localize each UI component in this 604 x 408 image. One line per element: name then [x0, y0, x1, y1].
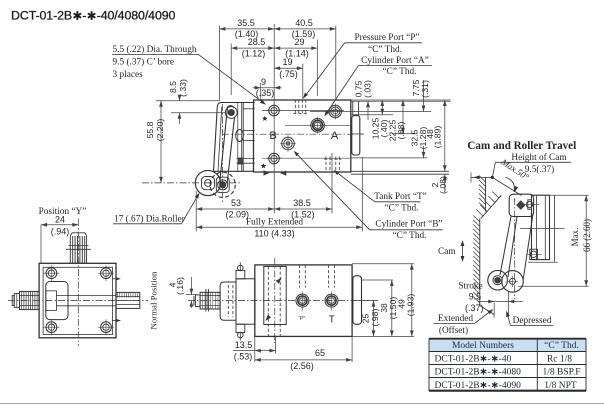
- direction arrows right edge: [112, 278, 119, 280]
- svg-text:“C” Thd.: “C” Thd.: [383, 67, 417, 77]
- lower clamp bolt: [238, 158, 244, 165]
- svg-text:110 (4.33): 110 (4.33): [254, 229, 294, 239]
- svg-text:B: B: [269, 130, 276, 142]
- roller center line: [142, 182, 240, 184]
- hidden tank port dashed: [325, 157, 327, 172]
- bracket to body connectors: [243, 108, 255, 110]
- dim 55.8 (2.20): [160, 101, 162, 183]
- svg-text:(2.56): (2.56): [290, 361, 314, 371]
- dim 35.5 / 40.5 row: [219, 28, 274, 30]
- svg-text:8.5: 8.5: [168, 81, 178, 93]
- line capsule mid: [351, 133, 364, 135]
- svg-text:DCT-01-2B∗-∗-4090: DCT-01-2B∗-∗-4090: [435, 381, 522, 391]
- svg-text:28.5: 28.5: [248, 37, 266, 47]
- svg-text:(.37): (.37): [465, 303, 484, 313]
- lever arm: [220, 107, 228, 180]
- svg-text:(.35): (.35): [256, 88, 275, 98]
- svg-text:9: 9: [261, 77, 266, 87]
- svg-text:Model Numbers: Model Numbers: [452, 341, 514, 351]
- line lower hole row: [262, 157, 351, 159]
- side view vertical center line: [274, 258, 276, 343]
- side view hidden bolt lines: [267, 266, 269, 336]
- pivot bolt: [225, 107, 237, 119]
- dim 28.5 / 29 row: [231, 47, 274, 49]
- dim 10.25 (.40): [381, 100, 383, 115]
- svg-text:Normal Position: Normal Position: [148, 271, 158, 330]
- cam hatching: [479, 176, 486, 183]
- plunger tip: [195, 295, 200, 307]
- svg-text:9.5 (.37) C’ bore: 9.5 (.37) C’ bore: [113, 56, 175, 67]
- svg-text:Cam and Roller Travel: Cam and Roller Travel: [467, 140, 576, 152]
- svg-text:(2.20): (2.20): [155, 119, 165, 142]
- cam follower boss: [236, 130, 244, 142]
- side view right extension lines: [352, 263, 414, 265]
- extension lines below main view: [195, 191, 197, 232]
- svg-text:(.31): (.31): [420, 80, 430, 98]
- svg-text:Cam: Cam: [438, 247, 456, 257]
- svg-text:(.75): (.75): [279, 69, 298, 79]
- dim 25 (.98): [373, 301, 375, 337]
- side view right cap: [353, 276, 362, 325]
- svg-text:“C” Thd.: “C” Thd.: [385, 204, 419, 214]
- main view valve body: [254, 100, 351, 172]
- svg-text:Extended: Extended: [438, 314, 473, 324]
- svg-text:3 places: 3 places: [113, 70, 144, 80]
- main view spool end cap: [352, 116, 360, 155]
- svg-text:(.03): (.03): [362, 80, 372, 98]
- side view bolt hole section: [264, 266, 286, 324]
- position Y spool through body: [56, 295, 116, 297]
- svg-text:“C” Thd.: “C” Thd.: [393, 231, 427, 241]
- position Y right spool splined: [116, 292, 140, 308]
- svg-text:Pressure Port “P”: Pressure Port “P”: [354, 33, 419, 43]
- extension lines above body: [218, 26, 220, 102]
- stroke dim: [493, 303, 495, 318]
- plunger center line: [77, 219, 79, 346]
- cam view rollers: [488, 270, 508, 290]
- svg-text:Cylinder Port “B”: Cylinder Port “B”: [375, 219, 442, 229]
- line A-port row: [310, 111, 431, 113]
- cam view lever arms: [500, 217, 511, 276]
- svg-text:Tank Port “T”: Tank Port “T”: [374, 192, 427, 202]
- port boss top-right triple circle: [329, 105, 341, 117]
- cam view lever pad: [509, 194, 533, 216]
- mounting hole bottom-left: [269, 153, 280, 164]
- dim max 66 (2.60): [585, 195, 587, 286]
- svg-text:17 (.67) Dia.Roller: 17 (.67) Dia.Roller: [114, 213, 186, 224]
- svg-text:(1.12): (1.12): [242, 49, 266, 59]
- spool stem verticals: [352, 101, 354, 115]
- hidden pressure port dashed: [294, 100, 296, 116]
- bottom plate lines extending right: [351, 170, 449, 172]
- side view P port: [296, 294, 309, 307]
- svg-text:24: 24: [55, 214, 65, 224]
- dim 53 / 38.5 row: [196, 208, 274, 210]
- svg-text:35.5: 35.5: [237, 18, 255, 28]
- dim 22.25 (.88): [402, 100, 404, 134]
- svg-text:66 (2.60): 66 (2.60): [582, 219, 592, 252]
- svg-text:40.5: 40.5: [295, 18, 313, 28]
- dim 49 (1.93): [411, 264, 413, 337]
- dim 0.75 (.03): [367, 101, 369, 120]
- dim 38 (1.50): [391, 280, 393, 336]
- svg-text:(1.89): (1.89): [433, 126, 443, 149]
- svg-text:55.8: 55.8: [145, 121, 155, 138]
- roller second position phantom: [210, 172, 235, 197]
- cylinder port A circle: [311, 119, 325, 133]
- svg-text:DCT-01-2B∗-∗-40/4080/4090: DCT-01-2B∗-∗-40/4080/4090: [11, 9, 176, 23]
- roller main position: [195, 170, 220, 195]
- svg-text:(.33): (.33): [178, 79, 188, 97]
- svg-text:1/8 BSP.F: 1/8 BSP.F: [542, 368, 580, 378]
- star mark top-left: [262, 116, 268, 121]
- extension line body top left: [156, 100, 220, 102]
- svg-text:9.5: 9.5: [469, 292, 482, 302]
- svg-text:(Offset): (Offset): [439, 325, 468, 336]
- svg-text:29: 29: [294, 37, 304, 47]
- cam face vertical: [479, 218, 481, 305]
- svg-text:65: 65: [315, 348, 325, 358]
- model numbers table: [429, 339, 586, 352]
- dim 32.5 (1.28): [423, 146, 425, 158]
- position Y bolts: [46, 268, 57, 279]
- cam view extension lines for 66: [532, 194, 588, 196]
- plunger side view: [200, 292, 220, 309]
- cap tabs and bolts: [236, 270, 245, 278]
- position Y clamp: [46, 282, 68, 320]
- dim 19 (.75): [274, 67, 303, 69]
- dim 2 (.08): [444, 174, 446, 192]
- dim fully extended 110: [196, 226, 362, 228]
- cam view structural lines: [520, 228, 565, 230]
- svg-text:Rc 1/8: Rc 1/8: [547, 355, 572, 365]
- svg-text:DCT-01-2B∗-∗-40: DCT-01-2B∗-∗-40: [435, 355, 512, 365]
- svg-text:Depressed: Depressed: [513, 316, 552, 326]
- dim 65 (2.56): [351, 336, 353, 362]
- position Y left spool stub: [20, 291, 40, 309]
- cam top reference line: [471, 176, 492, 178]
- cam view lever center line: [514, 198, 516, 299]
- side view body: [255, 265, 352, 337]
- plunger flange: [205, 289, 207, 312]
- line mounting hole row: [262, 110, 344, 112]
- cylinder port B circle: [282, 137, 295, 150]
- cam incline: [481, 195, 501, 218]
- position Y plunger: [69, 236, 71, 263]
- cam view bracket: [532, 195, 550, 259]
- max 50 angle line: [492, 177, 521, 195]
- svg-text:1/8 NPT: 1/8 NPT: [544, 381, 577, 391]
- lever pivot bracket: [214, 103, 255, 172]
- svg-text:13.5: 13.5: [235, 340, 253, 350]
- main view spool center line: [222, 133, 364, 135]
- line A port row short: [285, 124, 351, 126]
- dim 4 (.16): [186, 294, 197, 296]
- cap hidden lines: [227, 285, 229, 317]
- svg-text:Fully Extended: Fully Extended: [246, 218, 303, 228]
- position Y body: [39, 263, 116, 338]
- svg-text:Cylinder Port “A”: Cylinder Port “A”: [361, 56, 429, 66]
- extension lines right of body: [351, 99, 451, 101]
- svg-text:53: 53: [231, 198, 241, 208]
- svg-text:38.5: 38.5: [293, 198, 311, 208]
- svg-text:(.16): (.16): [175, 277, 185, 295]
- svg-text:“C” Thd.: “C” Thd.: [544, 341, 579, 351]
- dim 48 (1.89): [444, 100, 446, 171]
- svg-text:(.08): (.08): [438, 176, 448, 194]
- page footer rule: [0, 403, 604, 405]
- side view center line: [188, 300, 378, 302]
- section mark arrows at body bottom: [264, 170, 270, 175]
- side view left cap flange: [236, 279, 255, 324]
- leader to cam top: [492, 162, 495, 177]
- extension line pivot axis: [171, 112, 226, 114]
- svg-text:Height of Cam: Height of Cam: [511, 152, 567, 163]
- svg-text:(1.93): (1.93): [405, 294, 415, 317]
- dim 7.75 (.31): [423, 80, 425, 112]
- svg-text:DCT-01-2B∗-∗-4080: DCT-01-2B∗-∗-4080: [435, 368, 522, 378]
- svg-text:Max.: Max.: [570, 228, 580, 247]
- svg-text:(.88): (.88): [396, 122, 406, 140]
- dim 9 (.35): [253, 87, 282, 89]
- svg-text:“C” Thd.: “C” Thd.: [368, 45, 402, 55]
- svg-text:(.94): (.94): [51, 226, 70, 236]
- vertical hole column line: [273, 100, 275, 172]
- dim 13.5 (.53): [254, 336, 256, 362]
- svg-text:19: 19: [282, 57, 292, 67]
- dim 8.5 (.33): [179, 96, 181, 101]
- svg-text:Stroke: Stroke: [458, 281, 482, 291]
- position Y horizontal center line: [8, 299, 148, 301]
- star mark bottom-left: [261, 163, 267, 168]
- side view T port: [325, 294, 338, 307]
- mounting hole top-left: [269, 105, 280, 116]
- svg-text:A: A: [331, 130, 339, 142]
- side view hidden port lines: [299, 265, 301, 288]
- angle arc: [506, 177, 515, 191]
- cam face upper: [485, 177, 487, 211]
- lever center line: [221, 104, 223, 203]
- svg-text:“P”: “P”: [298, 316, 305, 322]
- svg-text:T: T: [329, 315, 335, 326]
- svg-text:(.53): (.53): [234, 351, 253, 361]
- svg-text:5.5 (.22) Dia. Through: 5.5 (.22) Dia. Through: [113, 44, 197, 55]
- bracket inner plate lines: [237, 103, 239, 171]
